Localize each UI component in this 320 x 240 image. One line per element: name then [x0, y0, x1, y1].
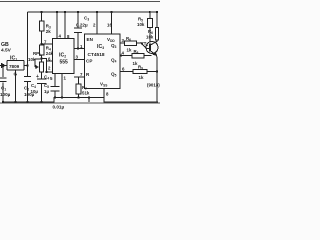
- svg-text:CP: CP: [86, 59, 92, 64]
- bottom border rule: [0, 102, 160, 104]
- wire pin7 branch: [42, 43, 53, 45]
- wire Q5 to R9: [120, 71, 157, 73]
- wire 4518 VSS pin: [103, 89, 105, 98]
- wire RP1 to C4: [41, 72, 43, 79]
- svg-text:10k: 10k: [28, 57, 36, 62]
- resistor R3: [39, 21, 44, 31]
- svg-text:16: 16: [107, 23, 112, 28]
- svg-text:EN: EN: [87, 37, 94, 42]
- wire regulator output to node: [24, 65, 28, 67]
- potentiometer RP1 wiper: [35, 59, 42, 67]
- transistor VT1: [142, 41, 159, 57]
- wire C4 to ground: [41, 84, 43, 102]
- wire 555 pin3 to 4518 CP: [74, 59, 85, 61]
- capacitor C5: [51, 87, 60, 92]
- resistor R9: [133, 70, 147, 74]
- wire C5 leads: [54, 74, 56, 98]
- svg-text:1k: 1k: [139, 75, 144, 80]
- wire R7 to ground: [78, 77, 80, 98]
- battery plus terminal: [2, 64, 6, 68]
- svg-text:0.22µ: 0.22µ: [76, 23, 88, 28]
- svg-text:+: +: [36, 74, 39, 80]
- resistor R8: [132, 54, 144, 58]
- svg-text:GB: GB: [1, 42, 9, 48]
- junction dots: [40, 11, 42, 13]
- resistor R6: [125, 41, 137, 45]
- svg-text:51k: 51k: [82, 91, 90, 96]
- svg-text:0.01µ: 0.01µ: [53, 105, 65, 110]
- ground rail: [2, 98, 158, 103]
- svg-text:7809: 7809: [9, 64, 20, 69]
- potentiometer RP1: [39, 62, 43, 72]
- wire 555 pin1 ground: [61, 74, 63, 98]
- wire Q3 to R6: [120, 42, 143, 44]
- wire C3 lower lead: [77, 33, 79, 49]
- wire left vertical from rail to C2: [27, 12, 29, 76]
- resistor R6 vertical: [155, 28, 158, 41]
- IC U3 CT4518 box: [85, 34, 121, 89]
- resistor R4: [39, 45, 44, 55]
- svg-text:1µ: 1µ: [44, 89, 49, 94]
- svg-text:2k: 2k: [46, 29, 51, 34]
- resistor R7: [76, 84, 81, 94]
- wire C3 upper lead: [77, 12, 79, 28]
- svg-text:10k: 10k: [146, 35, 154, 40]
- svg-text:G: G: [14, 72, 18, 77]
- svg-text:10µ: 10µ: [31, 89, 39, 94]
- svg-text:24k: 24k: [46, 51, 54, 56]
- wire 4518 R pin: [74, 76, 85, 78]
- capacitor C4: [37, 79, 47, 84]
- wire 555 pin8: [64, 12, 66, 39]
- resistor R5: [148, 19, 153, 28]
- wire rail drop through R6v to VT1 collector: [156, 12, 158, 42]
- wire Q4 to R8: [120, 55, 152, 57]
- capacitor C1: [0, 78, 7, 82]
- IC U1 regulator 7809 box: [7, 61, 24, 71]
- wire C2 lower lead to ground: [27, 82, 29, 102]
- svg-text:10k: 10k: [137, 22, 145, 27]
- wire R3 chain from rail: [41, 12, 43, 62]
- svg-text:100µ: 100µ: [0, 92, 11, 97]
- wire battery input line: [0, 65, 7, 67]
- wire R5 from rail: [149, 12, 151, 43]
- wire C1 leads: [2, 66, 4, 103]
- svg-text:1k: 1k: [127, 48, 132, 53]
- IC U2 555 box: [53, 39, 75, 74]
- capacitor C3: [74, 28, 82, 33]
- capacitor C2: [24, 77, 31, 82]
- svg-text:4.5V: 4.5V: [1, 48, 12, 54]
- svg-text:(9013): (9013): [147, 82, 160, 87]
- top border rule: [0, 1, 160, 3]
- wire jog connector to ground rail: [88, 98, 90, 103]
- wire 4518 VDD pin: [111, 12, 113, 34]
- svg-text:555: 555: [60, 60, 69, 66]
- wire regulator ground pin: [15, 70, 17, 102]
- wire 4518 EN supply pin: [96, 12, 98, 34]
- wire 555 to 4518 EN: [74, 48, 85, 50]
- wire 555 pin4: [56, 12, 58, 39]
- svg-text:CT4518: CT4518: [88, 52, 105, 58]
- wire pin6 pin2 link: [42, 59, 53, 73]
- wire V+ rail: [28, 11, 158, 13]
- wire VT1 emitter to ground: [156, 58, 158, 103]
